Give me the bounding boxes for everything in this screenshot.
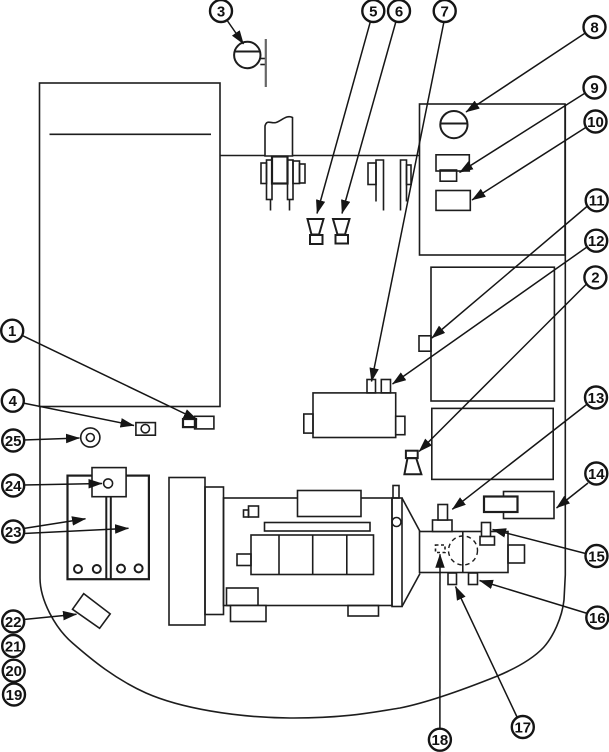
- horn bracket lines: [260, 58, 265, 60]
- svg-text:24: 24: [5, 478, 22, 495]
- leader line 4: [23, 403, 134, 426]
- panel1 latch: [440, 170, 457, 181]
- item 24 circle: [104, 479, 113, 488]
- right panel 1: [420, 104, 566, 255]
- svg-text:12: 12: [588, 233, 605, 250]
- leader line 13: [452, 404, 588, 510]
- leader line 23b: [24, 528, 129, 533]
- svg-text:14: 14: [588, 466, 605, 483]
- panel1 box item 9: [436, 155, 469, 171]
- leader line 1: [22, 335, 197, 419]
- item 2 cone: [404, 458, 421, 474]
- mast right bar: [288, 160, 294, 200]
- engine bracket foot: [244, 510, 249, 517]
- callout 25: [2, 430, 24, 452]
- callout 16: [586, 607, 608, 629]
- svg-text:7: 7: [441, 3, 449, 20]
- muffler right tab: [396, 416, 405, 434]
- item 16 bottom block: [469, 573, 478, 585]
- battery cell circle 2: [93, 565, 101, 573]
- block tab: [237, 554, 251, 566]
- mast right outer square: [300, 164, 306, 183]
- engine foot right: [348, 606, 379, 617]
- svg-text:10: 10: [587, 114, 604, 131]
- svg-text:13: 13: [588, 390, 605, 407]
- leader line 12: [393, 247, 588, 384]
- svg-text:9: 9: [590, 80, 598, 97]
- muffler left tab: [304, 414, 313, 433]
- item 13 base: [433, 520, 453, 532]
- stanchion A square: [368, 163, 376, 185]
- radiator shroud: [205, 487, 224, 615]
- gearbox: [420, 532, 509, 573]
- callout 12: [585, 230, 607, 252]
- deck line: [220, 155, 420, 157]
- item 25 outer circle: [81, 428, 100, 447]
- leader line 16: [480, 581, 588, 614]
- engine foot left 1: [227, 588, 259, 606]
- svg-text:18: 18: [432, 732, 449, 749]
- leader line 3: [227, 20, 244, 45]
- svg-text:21: 21: [5, 638, 22, 655]
- muffler inlet item 12: [381, 380, 390, 393]
- hull right edge: [564, 104, 566, 575]
- callout 8: [584, 16, 606, 38]
- valve cover: [298, 491, 362, 517]
- horn chord: [234, 51, 260, 53]
- svg-text:16: 16: [589, 610, 606, 627]
- mast right square: [293, 161, 300, 184]
- callout 6: [388, 0, 410, 22]
- battery cell circle 4: [135, 564, 143, 572]
- battery cell circle 1: [74, 565, 82, 573]
- item 2 cap: [406, 451, 418, 458]
- callout 15: [586, 545, 608, 567]
- callout 1: [1, 320, 23, 342]
- callout 18: [429, 729, 451, 751]
- item 1 small block: [183, 419, 196, 427]
- funnel item 6 base: [336, 235, 349, 244]
- callout 5: [362, 0, 384, 22]
- item 17 bottom block: [448, 573, 457, 585]
- funnel item 5 base: [310, 235, 323, 244]
- item 22 tilted plate: [73, 594, 111, 629]
- svg-text:22: 22: [5, 614, 22, 631]
- callout 22: [2, 611, 24, 633]
- svg-text:15: 15: [588, 548, 605, 565]
- svg-text:11: 11: [589, 193, 605, 210]
- leader line 14: [557, 483, 589, 508]
- gearbox right tab: [508, 545, 525, 563]
- leader line 25: [24, 438, 80, 440]
- leader line 15: [493, 530, 588, 555]
- leader line 23a: [24, 519, 86, 529]
- engine bracket: [249, 506, 259, 517]
- svg-text:3: 3: [217, 3, 225, 20]
- leader line 6: [342, 21, 396, 213]
- mast left bar: [267, 160, 273, 200]
- callout 20: [3, 660, 25, 682]
- panel1 circle chord: [440, 123, 467, 125]
- item 13 top: [438, 505, 448, 521]
- panel1 box item 10: [436, 191, 470, 211]
- svg-text:1: 1: [8, 323, 16, 340]
- band top pin: [393, 486, 399, 499]
- svg-text:25: 25: [5, 433, 22, 450]
- item 24 box: [92, 468, 126, 497]
- item 14 back plate: [504, 492, 555, 519]
- mast left square: [261, 163, 267, 184]
- cylinder divider 1: [278, 535, 280, 575]
- svg-text:4: 4: [9, 393, 18, 410]
- item 18 dashed square: [436, 545, 446, 553]
- gearbox dashed circle: [449, 536, 478, 565]
- callout 13: [585, 387, 607, 409]
- item 14 front plate: [484, 497, 518, 513]
- cylinder divider 3: [346, 535, 348, 575]
- svg-text:2: 2: [591, 270, 599, 287]
- cabin (forward deckhouse): [40, 83, 221, 407]
- item 15 base: [480, 537, 495, 546]
- leader line 18: [439, 554, 441, 729]
- mast center base: [272, 157, 288, 184]
- stanchion A bar: [376, 160, 384, 211]
- leader line 10: [472, 127, 587, 200]
- item 4 block: [136, 423, 156, 436]
- stanchion B square: [407, 165, 412, 185]
- leader line 5: [317, 21, 371, 213]
- cabin interior line: [50, 133, 212, 135]
- callout 7: [434, 0, 456, 22]
- right panel 3: [432, 408, 553, 479]
- gearbox divider: [462, 532, 464, 573]
- leader line 2: [419, 283, 588, 452]
- svg-text:6: 6: [395, 3, 403, 20]
- hull bottom curve: [40, 406, 565, 718]
- mast wavy cowl: [265, 117, 293, 156]
- callout 17: [512, 716, 534, 738]
- battery divider lines: [105, 497, 107, 580]
- mast long line right: [289, 200, 291, 211]
- svg-text:20: 20: [5, 663, 22, 680]
- funnel item 5: [308, 219, 324, 235]
- leader line 8: [466, 33, 586, 112]
- callout 19: [3, 684, 25, 706]
- battery box: [68, 476, 149, 580]
- callout 11: [586, 189, 608, 211]
- callout 4: [2, 390, 24, 412]
- leader line 22: [24, 614, 77, 619]
- item 11 square: [419, 336, 431, 351]
- funnel item 6: [333, 219, 350, 235]
- flywheel band: [392, 498, 402, 607]
- callout 21: [2, 635, 24, 657]
- engine foot left 2: [231, 606, 267, 622]
- item 4 circle: [141, 425, 149, 433]
- engine body: [224, 498, 393, 606]
- item 25 inner circle: [86, 434, 94, 442]
- svg-text:19: 19: [6, 687, 23, 704]
- svg-text:5: 5: [369, 3, 377, 20]
- callout 9: [584, 77, 606, 99]
- item 1 block: [195, 416, 214, 429]
- callout 24: [2, 475, 24, 497]
- mast long line left: [270, 200, 272, 211]
- horn mounting bar: [265, 39, 267, 87]
- stanchion B bar: [401, 160, 407, 211]
- band circle: [392, 518, 401, 527]
- callout 2: [584, 266, 606, 288]
- battery cell circle 3: [117, 565, 125, 573]
- callout 10: [585, 111, 607, 133]
- cylinder divider 2: [312, 535, 314, 575]
- leader line 7: [372, 22, 445, 382]
- panel1 circle item 8: [440, 111, 467, 138]
- leader line 9: [460, 93, 587, 173]
- callout 3: [210, 0, 232, 22]
- horn item 3 body: [234, 42, 260, 68]
- cylinder block: [251, 535, 374, 575]
- svg-text:23: 23: [5, 524, 22, 541]
- muffler inlet item 7: [367, 380, 376, 393]
- svg-text:17: 17: [514, 719, 531, 736]
- leader line 17: [456, 587, 518, 719]
- item 15 top: [482, 523, 491, 537]
- radiator: [169, 478, 205, 626]
- callout 23: [2, 521, 24, 543]
- bell housing cone: [402, 498, 420, 607]
- manifold bar: [265, 523, 371, 532]
- callout 14: [585, 463, 607, 485]
- right panel 2: [431, 267, 554, 401]
- leader line 11: [432, 206, 588, 338]
- svg-text:8: 8: [590, 19, 598, 36]
- muffler body: [313, 393, 396, 438]
- leader line 24: [24, 484, 103, 486]
